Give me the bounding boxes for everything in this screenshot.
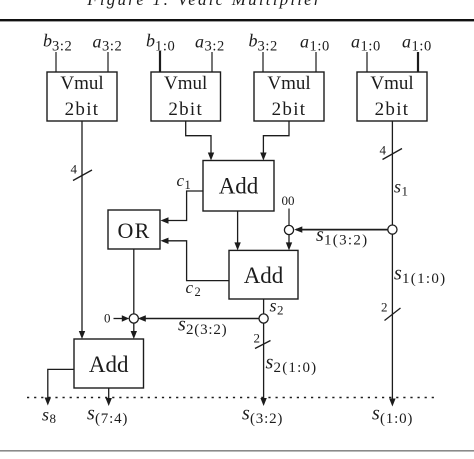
svg-text:1: 1 (185, 178, 191, 192)
wire: U4 right input stub (417, 52, 419, 72)
wire: Add3 sum output down (108, 388, 110, 400)
svg-text:3:2: 3:2 (52, 39, 72, 55)
svg-text:2: 2 (254, 331, 261, 346)
wire: U1 output vertical down to Add3 (81, 121, 83, 333)
bus slash on U4 output (383, 149, 403, 160)
svg-text:1:0: 1:0 (361, 39, 381, 55)
label s1 (net) (394, 177, 408, 199)
svg-text:b: b (249, 31, 258, 51)
svg-text:s: s (394, 263, 402, 285)
block Add1 (203, 161, 274, 212)
svg-text:Add: Add (244, 263, 284, 288)
bus slash on s1(1:0) (385, 308, 401, 321)
wire: U1 right input stub (107, 52, 109, 72)
svg-text:3:2: 3:2 (205, 39, 225, 55)
top rule (0, 19, 474, 21)
wire: U3 right input stub (315, 52, 317, 72)
block OR gate (108, 210, 160, 249)
label a1:0 (input of U4 right) (402, 32, 432, 55)
label a3:2 (input of U1) (93, 32, 123, 55)
bus slash on s2(1:0) (255, 341, 271, 349)
svg-text:3:2: 3:2 (102, 39, 122, 55)
svg-text:1(3:2): 1(3:2) (324, 233, 368, 249)
label s2(3:2) (178, 314, 227, 339)
svg-text:s: s (394, 177, 401, 197)
svg-text:s: s (270, 296, 277, 316)
wire: s1(3:2) horizontal into node above Add2 (296, 229, 388, 231)
label a3:2 (input of U2) (195, 32, 225, 55)
svg-text:Add: Add (89, 352, 129, 377)
wire: Add3 carry out s8 (left then down) (48, 369, 74, 399)
label s1(3:2) (316, 224, 368, 249)
svg-text:2: 2 (381, 300, 388, 315)
svg-text:2(3:2): 2(3:2) (186, 322, 227, 338)
wire: node down into Add3 (133, 323, 135, 333)
wire: U1 left input stub (55, 52, 57, 72)
svg-text:Vmul: Vmul (267, 73, 310, 94)
svg-text:4: 4 (380, 143, 387, 158)
label s1(1:0) (394, 263, 446, 288)
wire: U3 left input stub (262, 52, 264, 72)
block U3: Vmul 2bit (254, 72, 324, 121)
svg-text:(3:2): (3:2) (250, 411, 283, 427)
label s(3:2) (242, 403, 283, 428)
bus slash on U1 output (73, 170, 92, 181)
svg-text:Vmul: Vmul (370, 73, 413, 94)
svg-text:1:0: 1:0 (412, 39, 432, 55)
svg-text:b: b (146, 31, 155, 51)
svg-text:1(1:0): 1(1:0) (402, 271, 446, 287)
svg-text:Figure 1: Vedic Multiplier: Figure 1: Vedic Multiplier (86, 0, 323, 9)
svg-text:8: 8 (50, 411, 57, 426)
label s2 (270, 296, 284, 318)
label b1:0 (input of U2) (146, 31, 175, 55)
svg-text:3:2: 3:2 (258, 39, 278, 55)
svg-text:0: 0 (104, 311, 111, 326)
node: junction above Add2 (00 / s1(3:2)) (284, 225, 293, 234)
output boundary dotted line (27, 397, 438, 399)
wire: U4 output vertical down to output row (391, 121, 393, 400)
svg-text:a: a (402, 32, 411, 52)
wire: Add1 output down into Add2 (237, 211, 239, 244)
svg-text:2: 2 (277, 303, 284, 318)
svg-text:2bit: 2bit (272, 99, 307, 120)
label c2 (186, 278, 201, 299)
svg-text:c: c (177, 171, 185, 190)
svg-text:2bit: 2bit (168, 99, 203, 120)
node: junction on s1 (tap s1(3:2)) (388, 225, 397, 234)
label s(1:0) (372, 403, 413, 428)
label a1:0 (input of U3) (300, 32, 330, 55)
block Add2 (229, 250, 298, 299)
svg-text:s: s (42, 405, 49, 425)
svg-text:(7:4): (7:4) (95, 411, 128, 427)
svg-text:4: 4 (71, 162, 78, 177)
label c1 (177, 171, 191, 192)
wire: 00 stub down to node (288, 209, 290, 226)
wire: node down into Add2 (288, 235, 290, 244)
svg-text:2: 2 (195, 285, 201, 299)
label s8 (42, 405, 56, 427)
label b3:2 (input of U3) (249, 31, 278, 55)
svg-text:s: s (178, 314, 186, 336)
svg-text:Vmul: Vmul (60, 73, 103, 94)
svg-text:Add: Add (219, 174, 259, 199)
wire: Add2 output s2 down to junction (263, 299, 265, 314)
svg-text:00: 00 (282, 193, 295, 208)
svg-text:1: 1 (402, 184, 409, 199)
svg-text:(1:0): (1:0) (380, 411, 413, 427)
wire: U2 right input stub (211, 52, 213, 72)
node: junction on s2 (259, 314, 268, 323)
block U4: Vmul 2bit (357, 72, 427, 121)
svg-text:s: s (372, 403, 380, 425)
svg-text:2bit: 2bit (375, 99, 410, 120)
wire: OR output down to node (133, 249, 135, 314)
wire: s2(3:2) horizontal into node left (140, 318, 260, 320)
svg-text:1:0: 1:0 (155, 39, 175, 55)
svg-text:OR: OR (118, 218, 151, 243)
svg-text:c: c (186, 278, 194, 297)
bottom rule (0, 450, 474, 452)
svg-text:a: a (195, 32, 204, 52)
wire: c2 from Add2 left edge to OR input (167, 241, 229, 281)
svg-text:2(1:0): 2(1:0) (274, 360, 318, 376)
svg-text:1:0: 1:0 (310, 39, 330, 55)
wire: c1 from Add1 left edge to OR input (167, 191, 203, 221)
svg-text:s: s (87, 403, 95, 425)
wire: U2 output jog into Add1 (186, 121, 211, 154)
label a1:0 (input of U4 left) (351, 32, 381, 55)
svg-text:s: s (242, 403, 250, 425)
block Add3 (74, 339, 144, 388)
svg-text:a: a (93, 32, 102, 52)
wire: U4 left input stub (366, 52, 368, 72)
node: junction above Add3 (0 / OR out / s2(3:2)) (129, 314, 138, 323)
svg-text:a: a (300, 32, 309, 52)
wire: U2 left input stub (159, 51, 161, 72)
svg-text:Vmul: Vmul (164, 73, 207, 94)
svg-text:a: a (351, 32, 360, 52)
svg-text:s: s (266, 352, 274, 374)
wire: U3 output jog into Add1 (263, 121, 289, 154)
label s2(1:0) (266, 352, 318, 377)
block U2: Vmul 2bit (151, 72, 221, 121)
label b3:2 (input of U1) (43, 31, 72, 55)
label s(7:4) (87, 403, 128, 428)
wire: s2(1:0) down to output row (263, 323, 265, 399)
svg-text:s: s (316, 224, 324, 246)
block U1: Vmul 2bit (47, 72, 117, 121)
svg-text:b: b (43, 31, 52, 51)
wire: 0 into node (114, 318, 124, 320)
svg-text:2bit: 2bit (65, 99, 100, 120)
